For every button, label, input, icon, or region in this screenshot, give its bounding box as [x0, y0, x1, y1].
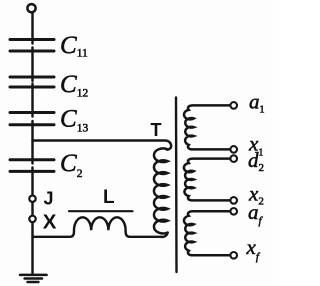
svg-text:T: T	[151, 120, 162, 140]
terminal d2	[230, 155, 237, 162]
node J	[29, 196, 35, 202]
svg-text:xf: xf	[246, 235, 261, 263]
transformer primary winding	[154, 148, 168, 233]
wire: terminal to C11	[31, 13, 33, 44]
terminal a1	[230, 102, 237, 109]
svg-text:L: L	[103, 187, 115, 208]
capacitor C12	[10, 77, 54, 87]
wire: junction to transformer primary top	[33, 140, 172, 149]
svg-text:a1: a1	[249, 90, 265, 116]
svg-text:C11: C11	[60, 32, 88, 60]
capacitor C11	[10, 40, 54, 52]
wire: C12 to C13	[31, 84, 33, 117]
inductor L	[33, 217, 162, 237]
terminal circle (input)	[27, 4, 35, 12]
secondary winding 3 (af-xf)	[184, 211, 230, 255]
node X	[29, 216, 35, 222]
svg-text:J: J	[44, 188, 54, 208]
capacitor C13	[10, 113, 54, 125]
secondary winding 1 (a1-x1)	[184, 105, 230, 149]
svg-text:C12: C12	[60, 71, 88, 100]
overline of L	[69, 210, 133, 212]
terminal x1	[230, 146, 237, 153]
svg-text:C2: C2	[60, 150, 83, 180]
wire: J to X	[31, 203, 33, 215]
wire: X to ground (junction at inductor tap)	[31, 223, 33, 274]
wire: C13 to C2 (with junction to transformer)	[31, 121, 33, 164]
transformer core	[175, 98, 178, 273]
wire: inductor to primary bottom	[161, 233, 168, 237]
wire: C11 to C12	[31, 48, 33, 82]
ground	[20, 275, 47, 282]
terminal x2	[230, 197, 237, 204]
capacitor C2	[10, 160, 54, 172]
wire: C2 to J	[31, 168, 33, 195]
secondary winding 2 (d2-x2)	[184, 159, 230, 201]
svg-text:C13: C13	[60, 106, 88, 135]
svg-text:X: X	[43, 210, 57, 233]
terminal xf	[230, 252, 237, 259]
terminal af	[230, 208, 237, 215]
